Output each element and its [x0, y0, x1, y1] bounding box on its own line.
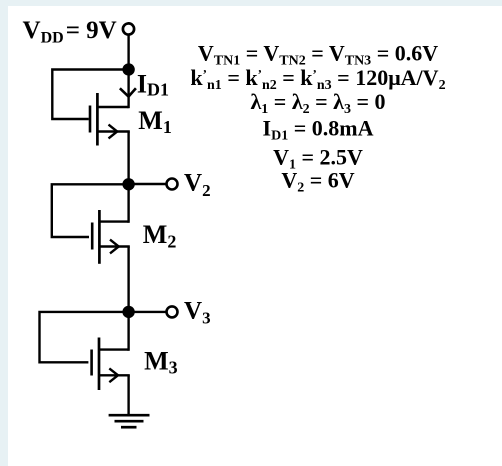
transistor M3 [92, 338, 130, 391]
transistor M2 [92, 210, 130, 264]
parameter line VTN [198, 41, 438, 69]
label VDD = 9V [23, 17, 117, 47]
label M1 [138, 106, 172, 137]
parameter line V2 value [281, 168, 354, 196]
wire M2 gate loop [52, 184, 129, 237]
svg-text:V2 = 6V: V2 = 6V [281, 168, 354, 196]
terminal V3 [167, 306, 178, 317]
parameter line V1 [273, 145, 363, 173]
wire VDD terminal to node 1 [127, 34, 129, 69]
label ID1 [137, 69, 169, 99]
transistor M1 [90, 93, 130, 146]
wire M2 source to node 3 [127, 247, 129, 312]
parameter line lambda [250, 89, 385, 117]
ground [109, 415, 150, 427]
wire node 3 to M3 drain [127, 312, 129, 351]
node 3 junction dot [122, 306, 134, 318]
label M2 [143, 220, 177, 251]
node 2 junction dot [122, 178, 134, 190]
label M3 [144, 346, 178, 377]
wire node 1 to M1 drain [127, 70, 129, 109]
power terminal VDD [123, 23, 134, 34]
wire M1 gate loop [52, 70, 128, 120]
current arrow ID1 [120, 88, 136, 96]
wire node 2 to V2 terminal [129, 183, 167, 185]
parameter line ID1 [263, 116, 374, 144]
wire M3 source to ground [127, 375, 129, 415]
svg-text:λ1 = λ2 = λ3 = 0: λ1 = λ2 = λ3 = 0 [250, 89, 385, 117]
wire M1 source to node 2 [127, 132, 129, 185]
label V3 [184, 297, 211, 327]
node 1 junction dot [122, 63, 134, 75]
terminal V2 [167, 179, 178, 190]
wire M3 gate loop [40, 312, 129, 362]
svg-text:VDD= 9V: VDD= 9V [23, 17, 117, 47]
label V2 [184, 170, 211, 200]
wire node 3 to V3 terminal [129, 311, 167, 313]
wire node 2 to M2 drain [127, 184, 129, 223]
parameter line kn [190, 65, 445, 93]
